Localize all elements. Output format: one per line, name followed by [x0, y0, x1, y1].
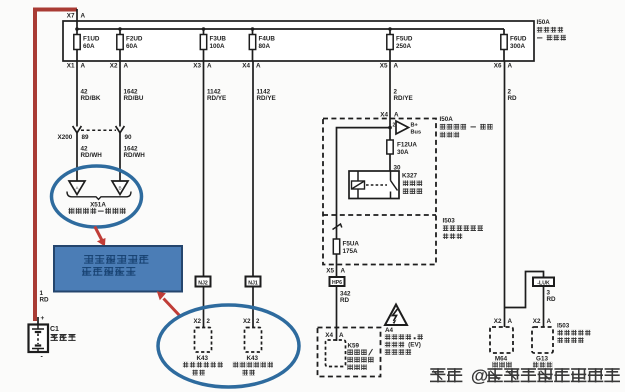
fuse F1UD 60A [74, 29, 100, 61]
svg-text:B: B [118, 186, 121, 191]
svg-text:89: 89 [82, 134, 90, 141]
inline connector HP6 [330, 277, 345, 286]
svg-text:X6: X6 [494, 63, 502, 70]
svg-text:RD: RD [547, 296, 557, 303]
svg-text:X2: X2 [110, 63, 118, 70]
wire battery positive cable (red) [35, 10, 77, 322]
wire branch starter-generator [505, 272, 544, 308]
svg-text:A: A [207, 63, 212, 70]
svg-text:X2: X2 [194, 318, 202, 325]
wire 42 RD/BK [76, 61, 78, 127]
svg-text:X200: X200 [58, 134, 73, 141]
warning triangle A4 hybrid/EV battery [385, 305, 407, 326]
svg-text:A: A [124, 63, 129, 70]
svg-text:90: 90 [125, 134, 133, 141]
wire 342 RD [336, 286, 338, 341]
svg-text:I503: I503 [443, 218, 456, 225]
svg-text:60A: 60A [126, 43, 138, 50]
svg-text:A: A [341, 268, 346, 275]
wire to K43 right [252, 287, 254, 328]
B+ bus terminal triangle [396, 121, 409, 134]
svg-text:F5UD: F5UD [396, 36, 413, 43]
svg-text:X3: X3 [193, 63, 201, 70]
svg-text:175A: 175A [343, 248, 359, 255]
svg-text:2: 2 [256, 318, 260, 325]
connector X200 dashed link [81, 129, 116, 131]
svg-text:X2: X2 [494, 318, 502, 325]
svg-text:F1UD: F1UD [83, 36, 100, 43]
svg-text:A: A [394, 112, 399, 119]
svg-text:X5: X5 [380, 63, 388, 70]
svg-text:300A: 300A [510, 43, 526, 50]
svg-text:K43: K43 [197, 355, 209, 362]
svg-text:RD: RD [508, 95, 518, 102]
fuse F12UA 30A [387, 140, 393, 154]
svg-text:A: A [81, 13, 86, 20]
svg-text:RD/YE: RD/YE [257, 95, 276, 102]
wire 3 RD [543, 286, 545, 327]
fuse terminal B (X51A) [112, 181, 128, 195]
svg-text:2: 2 [207, 318, 211, 325]
inline connector -LUK [533, 278, 554, 287]
svg-text:NJ1: NJ1 [248, 280, 258, 286]
node X7 input [76, 9, 78, 29]
fuse box underhood (dashed) [323, 119, 436, 265]
divider dashed (I503) [323, 214, 436, 216]
svg-text:Bus: Bus [411, 130, 422, 136]
annotation arrow 2 (red) [164, 299, 180, 316]
svg-text:X4: X4 [380, 112, 388, 119]
splice tick [333, 224, 342, 230]
svg-text:RD/BU: RD/BU [124, 95, 144, 102]
connector X200 pin 89 terminal [73, 126, 82, 133]
wire to HP6 [336, 254, 338, 277]
svg-text:60A: 60A [83, 43, 95, 50]
svg-text:F4UB: F4UB [259, 36, 276, 43]
svg-text:RD/YE: RD/YE [394, 95, 413, 102]
brace grouping X51A [67, 192, 131, 200]
svg-text:A: A [508, 63, 513, 70]
svg-text:X5: X5 [326, 268, 334, 275]
svg-text:A: A [394, 63, 399, 70]
svg-text:X4: X4 [325, 332, 333, 339]
node B+ bus junction [388, 126, 392, 130]
svg-text:I50A: I50A [440, 116, 454, 123]
svg-text:A4: A4 [385, 327, 394, 334]
svg-text:A: A [256, 63, 261, 70]
svg-text:K327: K327 [402, 173, 418, 180]
svg-text:X2: X2 [533, 318, 541, 325]
svg-text:X51A: X51A [90, 202, 106, 209]
wire 1642 RD/BU [119, 61, 121, 127]
svg-text:250A: 250A [396, 43, 412, 50]
connector X200 pin 90 terminal [116, 126, 125, 133]
inline connector NJ1 [246, 277, 261, 287]
svg-text:A: A [508, 318, 513, 325]
svg-text:100A: 100A [210, 43, 226, 50]
wire to K43 left [203, 287, 205, 328]
svg-text:RD/WH: RD/WH [81, 152, 103, 159]
module K43 power steering (right) [245, 328, 262, 353]
module K43 power steering (left) [195, 328, 212, 353]
svg-text:C1: C1 [50, 326, 59, 333]
wire 2 RD/YE [389, 61, 391, 140]
svg-text:K43: K43 [247, 355, 259, 362]
svg-text:F5UA: F5UA [343, 241, 360, 248]
callout ellipse X51A (blue) [52, 166, 142, 227]
fuse F5UD 250A [387, 29, 413, 61]
svg-text:NJ2: NJ2 [198, 280, 208, 286]
svg-text:X4: X4 [242, 63, 250, 70]
battery C1 [29, 315, 76, 361]
svg-text:A: A [339, 332, 344, 339]
wire 1142 RD/YE (left) [203, 61, 205, 277]
svg-text:B+: B+ [411, 123, 419, 129]
wire 2 RD (to starter) [504, 61, 506, 327]
svg-text:A: A [547, 318, 552, 325]
fuse F3UB 100A [200, 29, 226, 61]
svg-text:@: @ [471, 365, 488, 385]
svg-text:RD/BK: RD/BK [81, 95, 101, 102]
annotation arrow 1 (red) [95, 227, 102, 241]
svg-text:(EV): (EV) [408, 342, 421, 349]
svg-text:-LUK: -LUK [537, 280, 550, 286]
svg-text:F6UD: F6UD [510, 36, 527, 43]
svg-text:80A: 80A [259, 43, 271, 50]
fuse box I50A - battery (top bus box) [63, 21, 534, 61]
svg-text:RD/YE: RD/YE [207, 95, 226, 102]
svg-text:F12UA: F12UA [397, 142, 417, 149]
svg-text:30A: 30A [397, 149, 409, 156]
svg-text:2: 2 [393, 123, 396, 129]
fuse F6UD 300A [501, 29, 527, 61]
svg-text:F3UB: F3UB [210, 36, 227, 43]
svg-text:X1: X1 [67, 63, 75, 70]
wire 1142 RD/YE (right) [252, 61, 254, 277]
svg-text:RD: RD [340, 297, 350, 304]
callout ellipse K43 modules (blue) [158, 305, 299, 387]
wire branch to F5UA [337, 128, 391, 239]
module K59 starter/generator control (dashed) [318, 328, 381, 377]
fuse F2UD 60A [117, 29, 143, 61]
watermark toutiao [430, 368, 445, 370]
svg-text:A: A [81, 63, 86, 70]
wire to relay pin 30 [389, 154, 391, 171]
fuse F4UB 80A [249, 29, 275, 61]
svg-text:X7: X7 [67, 13, 75, 20]
svg-text:+: + [41, 315, 45, 322]
relay K327 starter relay [349, 171, 399, 199]
svg-text:I50A: I50A [537, 19, 551, 26]
svg-text:K59: K59 [348, 343, 360, 350]
fuse terminal A (X51A) [69, 181, 85, 195]
annotation box: instrument lamps flash / turn lamps inoperative [54, 246, 182, 292]
svg-text:F2UD: F2UD [126, 36, 143, 43]
svg-text:I503: I503 [557, 323, 570, 330]
svg-text:-: - [41, 354, 44, 361]
svg-text:M64: M64 [495, 356, 508, 363]
svg-text:HP6: HP6 [332, 280, 342, 286]
svg-text:G13: G13 [536, 356, 548, 363]
svg-text:RD/WH: RD/WH [124, 152, 146, 159]
wire 42 RD/WH [76, 133, 78, 181]
svg-text:RD: RD [40, 297, 50, 304]
svg-text:X2: X2 [243, 318, 251, 325]
inline connector NJ2 [196, 277, 211, 287]
fuse F5UA 175A [333, 239, 339, 254]
bus bar inside fuse box [77, 28, 504, 30]
wire 1642 RD/WH [119, 133, 121, 181]
